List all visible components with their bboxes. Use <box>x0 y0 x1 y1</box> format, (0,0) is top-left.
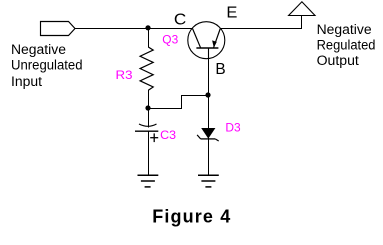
svg-text:R3: R3 <box>116 68 133 82</box>
wire: R3 down to junction <box>148 90 150 108</box>
svg-text:B: B <box>215 61 225 78</box>
svg-text:Q3: Q3 <box>162 32 178 46</box>
ground (under D3) <box>198 175 219 187</box>
svg-text:Negative: Negative <box>317 22 372 37</box>
capacitor C3 (polarized) <box>135 108 158 176</box>
svg-text:Negative: Negative <box>11 42 66 57</box>
input terminal (Negative Unregulated Input tag) <box>41 22 76 36</box>
transistor Q3 (PNP, base down) <box>188 22 225 59</box>
wire: main rail input to output <box>75 28 302 30</box>
node: input/R3 junction <box>145 25 150 30</box>
ground (under C3) <box>138 175 159 187</box>
wire: step vertical <box>181 95 183 109</box>
node: R3/C3/base junction <box>145 105 150 110</box>
wire: transistor base down through zener to ground <box>208 48 210 176</box>
label: Negative Regulated Output <box>317 22 376 68</box>
wire: rail down to R3 <box>148 28 150 48</box>
wire: step horizontal upper to base junction <box>181 95 209 97</box>
svg-text:Input: Input <box>11 74 42 89</box>
svg-text:C: C <box>174 12 186 29</box>
label: Negative Unregulated Input <box>11 42 83 89</box>
svg-text:E: E <box>226 5 237 22</box>
wire: junction step to base (horizontal lower) <box>148 108 182 110</box>
svg-text:Regulated: Regulated <box>317 38 376 53</box>
svg-text:D3: D3 <box>225 120 240 134</box>
svg-text:Unregulated: Unregulated <box>11 58 83 73</box>
output terminal symbol (Negative Regulated Output) <box>289 2 315 29</box>
svg-text:C3: C3 <box>160 128 176 142</box>
svg-text:Output: Output <box>317 53 359 68</box>
node: base/zener junction <box>205 92 210 97</box>
resistor R3 <box>140 47 153 90</box>
zener diode D3 <box>197 128 219 141</box>
svg-text:Figure 4: Figure 4 <box>152 207 231 227</box>
